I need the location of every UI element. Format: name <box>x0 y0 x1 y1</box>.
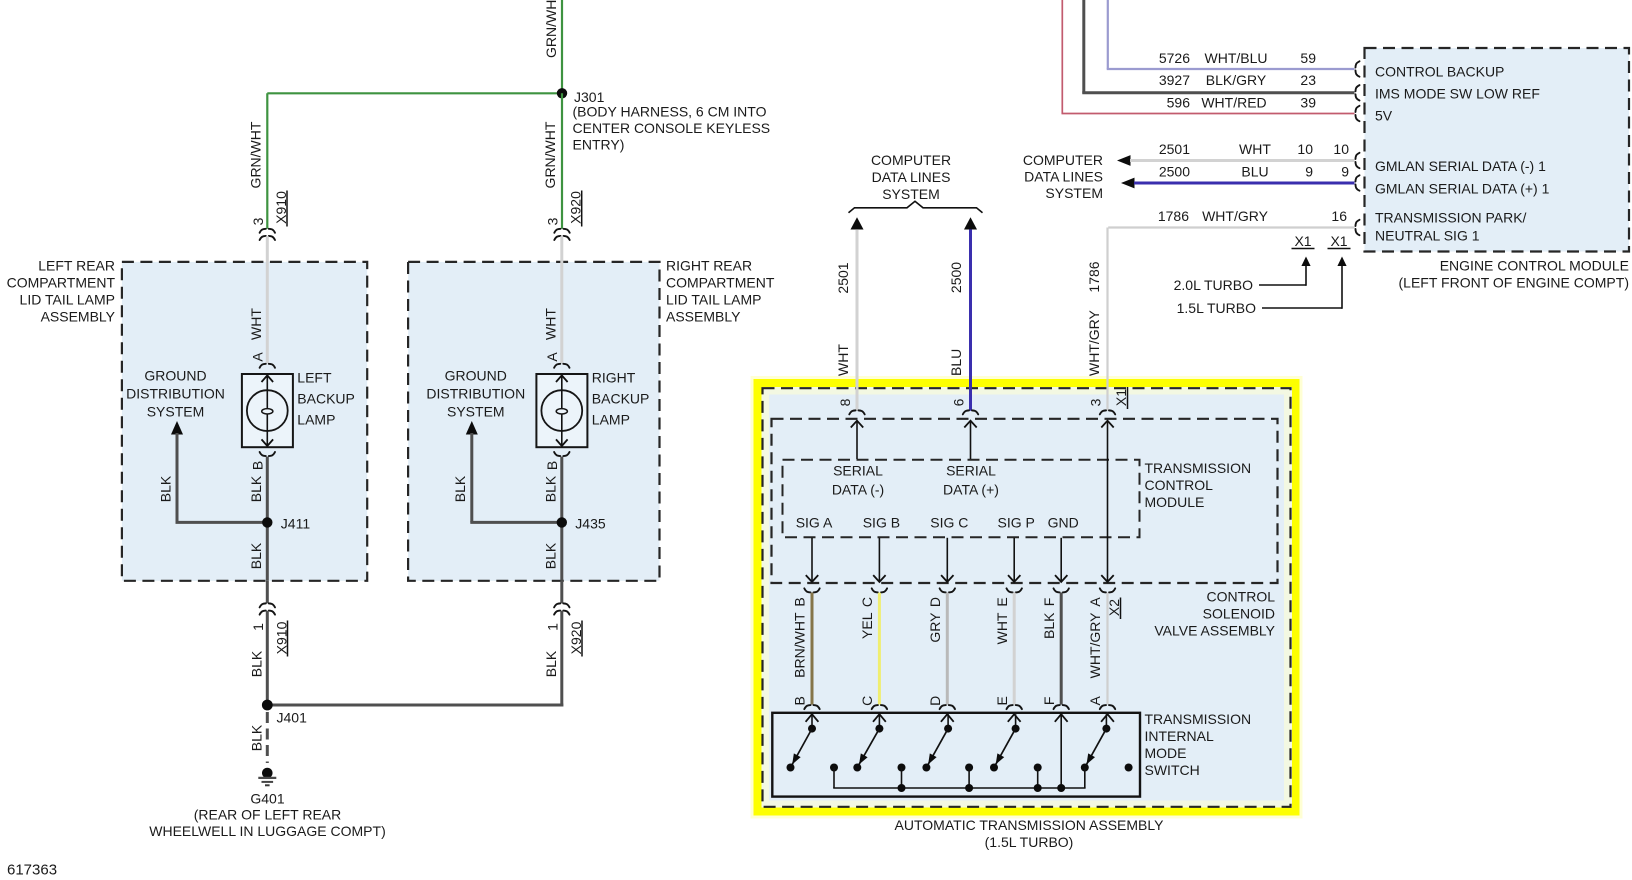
svg-text:D: D <box>927 696 943 706</box>
svg-text:5726: 5726 <box>1159 50 1190 66</box>
svg-text:ASSEMBLY: ASSEMBLY <box>41 308 116 324</box>
svg-text:9: 9 <box>1305 164 1313 180</box>
svg-text:A: A <box>250 352 266 362</box>
svg-text:WHEELWELL IN LUGGAGE COMPT): WHEELWELL IN LUGGAGE COMPT) <box>149 823 385 839</box>
computer data lines system (right instance) <box>1023 152 1103 168</box>
wire green horizontal J301 branch <box>267 92 562 94</box>
svg-text:TRANSMISSION: TRANSMISSION <box>1145 460 1252 476</box>
svg-text:SERIAL: SERIAL <box>946 462 996 478</box>
svg-text:2501: 2501 <box>1159 141 1190 157</box>
svg-text:J411: J411 <box>281 515 311 531</box>
svg-text:J401: J401 <box>277 709 308 725</box>
svg-text:AUTOMATIC TRANSMISSION ASSEMBL: AUTOMATIC TRANSMISSION ASSEMBLY <box>895 817 1165 833</box>
svg-text:CENTER CONSOLE KEYLESS: CENTER CONSOLE KEYLESS <box>573 120 771 136</box>
automatic transmission assembly yellow box <box>751 376 1303 819</box>
svg-text:BLK: BLK <box>1041 612 1057 639</box>
svg-text:DATA LINES: DATA LINES <box>872 169 951 185</box>
svg-text:MODE: MODE <box>1145 745 1187 761</box>
wire WHT into LEFT lamp <box>266 236 269 363</box>
svg-text:GMLAN SERIAL DATA (-) 1: GMLAN SERIAL DATA (-) 1 <box>1375 158 1546 174</box>
svg-text:BLK: BLK <box>248 475 264 502</box>
svg-text:E: E <box>994 597 1010 606</box>
TCM connector braces top <box>849 410 864 414</box>
wire BLK to X920 lower <box>560 581 563 604</box>
svg-text:1.5L TURBO: 1.5L TURBO <box>1177 300 1256 316</box>
svg-text:VALVE ASSEMBLY: VALVE ASSEMBLY <box>1154 622 1275 638</box>
wire WHT/GRY pin A <box>1106 593 1108 705</box>
svg-text:SIG P: SIG P <box>998 514 1035 530</box>
svg-text:(BODY HARNESS, 6 CM INTO: (BODY HARNESS, 6 CM INTO <box>573 103 767 119</box>
svg-text:D: D <box>927 597 943 607</box>
svg-text:WHT: WHT <box>994 612 1010 644</box>
svg-text:SYSTEM: SYSTEM <box>147 403 205 419</box>
wire 1786 WHT/GRY down to transmission <box>1106 228 1108 411</box>
mode switch connector pin A <box>1100 705 1115 709</box>
svg-text:3: 3 <box>544 217 560 225</box>
svg-text:INTERNAL: INTERNAL <box>1145 728 1214 744</box>
svg-text:3: 3 <box>1087 398 1103 406</box>
svg-text:ENTRY): ENTRY) <box>573 136 625 152</box>
left backup lamp <box>242 374 293 447</box>
svg-text:GROUND: GROUND <box>445 367 507 383</box>
svg-text:23: 23 <box>1300 72 1316 88</box>
connector X910 upper <box>260 229 275 233</box>
svg-text:SIG B: SIG B <box>863 514 900 530</box>
bus wiring <box>833 768 835 789</box>
svg-text:LAMP: LAMP <box>297 411 335 427</box>
svg-text:SOLENOID: SOLENOID <box>1203 605 1275 621</box>
svg-text:IMS MODE SW LOW REF: IMS MODE SW LOW REF <box>1375 85 1540 101</box>
svg-text:SERIAL: SERIAL <box>833 462 883 478</box>
wire GRN/WHT to X920 <box>561 93 563 228</box>
svg-text:GRN/WHT: GRN/WHT <box>542 121 558 188</box>
svg-text:10: 10 <box>1333 141 1349 157</box>
svg-text:SYSTEM: SYSTEM <box>882 186 940 202</box>
svg-text:3: 3 <box>250 217 266 225</box>
svg-text:TRANSMISSION: TRANSMISSION <box>1145 711 1252 727</box>
node J411 <box>262 517 272 527</box>
svg-text:BLK: BLK <box>543 542 559 569</box>
transmission assembly dashed border <box>763 388 1291 807</box>
connector X920 upper <box>554 229 569 233</box>
svg-text:F: F <box>1041 697 1057 706</box>
svg-text:X1: X1 <box>1330 233 1347 249</box>
svg-text:A: A <box>1087 597 1103 607</box>
svg-text:BLK: BLK <box>452 475 468 502</box>
svg-text:BLK: BLK <box>543 650 559 677</box>
mode switch connector pin D <box>940 705 955 709</box>
svg-text:X1: X1 <box>1113 389 1129 406</box>
svg-text:6: 6 <box>950 398 966 406</box>
label 5726 WHT/BLU 59 <box>1159 50 1190 66</box>
wire GRN/WHT to X910 <box>266 93 268 228</box>
svg-text:RIGHT: RIGHT <box>592 369 636 385</box>
mode switch connector pin B <box>804 705 819 709</box>
svg-text:E: E <box>994 696 1010 705</box>
svg-text:2501: 2501 <box>835 262 851 293</box>
connector lamp pin A <box>554 364 569 368</box>
svg-text:BLU: BLU <box>948 349 964 376</box>
computer data lines system (left instance) <box>871 152 951 168</box>
svg-text:COMPUTER: COMPUTER <box>1023 152 1103 168</box>
svg-text:LAMP: LAMP <box>592 411 630 427</box>
svg-text:B: B <box>250 461 266 470</box>
svg-text:DATA (+): DATA (+) <box>943 481 999 497</box>
svg-text:CONTROL: CONTROL <box>1207 588 1276 604</box>
svg-text:COMPARTMENT: COMPARTMENT <box>7 274 116 290</box>
svg-text:WHT: WHT <box>1239 141 1271 157</box>
wire WHT into RIGHT lamp <box>560 236 563 363</box>
wire GRY pin D <box>946 593 949 705</box>
switch arms <box>791 729 813 768</box>
arrow serial data (+) up <box>970 422 972 460</box>
svg-text:(1.5L TURBO): (1.5L TURBO) <box>985 834 1074 850</box>
svg-text:BLK: BLK <box>248 650 264 677</box>
svg-text:B: B <box>792 597 808 606</box>
svg-text:1786: 1786 <box>1158 208 1189 224</box>
switch F line to bus <box>1060 714 1062 788</box>
mode switch connector pin F <box>1054 705 1069 709</box>
svg-text:617363: 617363 <box>7 861 57 878</box>
wire GRN/WHT from top to J301 <box>561 0 563 95</box>
svg-text:WHT/GRY: WHT/GRY <box>1087 612 1103 679</box>
svg-text:F: F <box>1041 598 1057 607</box>
connector lamp pin A <box>260 364 275 368</box>
svg-text:DISTRIBUTION: DISTRIBUTION <box>126 385 225 401</box>
svg-text:X1: X1 <box>1294 233 1311 249</box>
svg-text:LID TAIL LAMP: LID TAIL LAMP <box>666 291 761 307</box>
node J301 <box>557 88 567 98</box>
svg-text:BACKUP: BACKUP <box>592 390 650 406</box>
connector lamp pin B <box>554 452 569 456</box>
svg-text:BLK: BLK <box>543 475 559 502</box>
svg-text:2500: 2500 <box>1159 164 1190 180</box>
svg-text:BLK: BLK <box>248 724 264 751</box>
svg-text:ENGINE CONTROL MODULE: ENGINE CONTROL MODULE <box>1440 257 1629 273</box>
label X1 X1 under ECM <box>1294 233 1311 249</box>
svg-text:YEL: YEL <box>859 612 875 639</box>
wire BLK to X910 lower <box>266 581 269 604</box>
svg-text:B: B <box>792 696 808 705</box>
svg-text:GMLAN SERIAL DATA (+) 1: GMLAN SERIAL DATA (+) 1 <box>1375 180 1550 196</box>
svg-text:GRN/WHT: GRN/WHT <box>543 0 559 58</box>
svg-text:(REAR OF LEFT REAR: (REAR OF LEFT REAR <box>194 807 342 823</box>
transmission internal mode switch box <box>772 713 1140 797</box>
svg-text:3927: 3927 <box>1159 72 1190 88</box>
wire WHT pin E <box>1013 593 1016 705</box>
svg-text:G401: G401 <box>250 790 284 806</box>
svg-text:CONTROL BACKUP: CONTROL BACKUP <box>1375 63 1504 79</box>
left lamp assembly box <box>122 262 367 581</box>
svg-text:LEFT REAR: LEFT REAR <box>38 257 115 273</box>
svg-text:WHT: WHT <box>543 308 559 340</box>
ECM connector braces <box>1355 61 1359 76</box>
svg-text:WHT/GRY: WHT/GRY <box>1086 309 1102 376</box>
wire 1786 WHT/GRY from ECM <box>1108 226 1354 228</box>
svg-text:ASSEMBLY: ASSEMBLY <box>666 308 741 324</box>
connector X920 lower <box>554 603 569 607</box>
contact dots open <box>787 764 795 772</box>
mode switch connector pin E <box>1007 705 1022 709</box>
wire BLK X920 down to J401 bus <box>560 611 563 707</box>
wire BLK dashed to ground <box>266 712 269 763</box>
arrow serial data (-) up <box>856 422 858 460</box>
2.0L TURBO callout <box>1174 277 1253 293</box>
svg-text:SIG A: SIG A <box>796 514 833 530</box>
wire BLK/GRY from top <box>1082 0 1085 94</box>
node J401 <box>262 700 273 711</box>
svg-text:GRN/WHT: GRN/WHT <box>247 121 263 188</box>
wire WHT/RED from top <box>1061 0 1063 114</box>
contact dots on bus stubs <box>830 764 838 772</box>
wire BLK pin F <box>1060 593 1063 705</box>
svg-text:WHT/GRY: WHT/GRY <box>1202 208 1269 224</box>
mode switch internals <box>806 714 819 722</box>
control solenoid valve assembly connector braces <box>804 588 819 592</box>
svg-text:5V: 5V <box>1375 107 1393 123</box>
wire BLK lamp to J411 <box>266 457 269 581</box>
svg-text:SYSTEM: SYSTEM <box>1045 185 1103 201</box>
label 596 WHT/RED 39 <box>1167 95 1191 111</box>
ground G401 <box>262 768 273 779</box>
svg-text:TRANSMISSION PARK/: TRANSMISSION PARK/ <box>1375 209 1527 225</box>
wire BLK lamp to J435 <box>560 457 563 581</box>
svg-text:BLK/GRY: BLK/GRY <box>1206 72 1267 88</box>
wire 2500 BLU horizontal <box>1121 178 1135 189</box>
label 3927 BLK/GRY 23 <box>1159 72 1190 88</box>
svg-text:1: 1 <box>544 623 560 631</box>
svg-text:9: 9 <box>1341 164 1349 180</box>
svg-text:GRY: GRY <box>927 612 943 643</box>
wire YEL pin C <box>878 593 881 705</box>
brace computer data lines <box>849 201 983 213</box>
caption left rear compartment <box>38 257 115 273</box>
svg-text:SIG C: SIG C <box>930 514 968 530</box>
svg-text:A: A <box>544 352 560 362</box>
wire WHT/BLU from top <box>1107 0 1109 70</box>
ground distribution system text+arrow <box>445 367 507 383</box>
svg-text:BLU: BLU <box>1241 164 1268 180</box>
mode switch connector pin C <box>872 705 887 709</box>
svg-text:LEFT: LEFT <box>297 369 332 385</box>
pin numbers at TCM top <box>837 398 853 406</box>
node J435 <box>557 517 567 527</box>
svg-text:A: A <box>1087 695 1103 705</box>
wire J401 horizontal bus <box>267 704 563 707</box>
1.5L TURBO callout <box>1177 300 1256 316</box>
right lamp assembly box <box>408 262 659 581</box>
svg-text:2500: 2500 <box>948 262 964 293</box>
engine control module box <box>1365 48 1630 252</box>
svg-text:CONTROL: CONTROL <box>1145 477 1214 493</box>
svg-text:C: C <box>859 696 875 706</box>
svg-text:COMPUTER: COMPUTER <box>871 152 951 168</box>
svg-text:WHT/RED: WHT/RED <box>1201 95 1266 111</box>
svg-text:59: 59 <box>1300 50 1316 66</box>
svg-text:16: 16 <box>1331 208 1347 224</box>
wire BLK X910 to J401 <box>266 611 269 705</box>
svg-text:RIGHT REAR: RIGHT REAR <box>666 257 752 273</box>
wire X1 pin3 down through TCM <box>1107 422 1109 582</box>
caption right rear compartment <box>666 257 752 273</box>
svg-text:DATA (-): DATA (-) <box>832 481 884 497</box>
wire BRN/WHT pin B <box>811 593 814 705</box>
svg-text:WHT/BLU: WHT/BLU <box>1205 50 1268 66</box>
svg-text:WHT: WHT <box>248 308 264 340</box>
serial data box <box>783 460 1140 538</box>
wire 2501 WHT down to transmission <box>851 217 864 229</box>
svg-text:GROUND: GROUND <box>144 367 206 383</box>
svg-text:J435: J435 <box>575 515 606 531</box>
wire 2501 WHT horizontal <box>1117 155 1131 166</box>
svg-text:COMPARTMENT: COMPARTMENT <box>666 274 775 290</box>
svg-text:WHT: WHT <box>835 344 851 376</box>
svg-text:8: 8 <box>837 398 853 406</box>
svg-text:LID TAIL LAMP: LID TAIL LAMP <box>20 291 115 307</box>
svg-text:596: 596 <box>1167 95 1191 111</box>
svg-text:B: B <box>544 461 560 470</box>
svg-text:1786: 1786 <box>1086 261 1102 292</box>
svg-text:DATA LINES: DATA LINES <box>1024 168 1103 184</box>
svg-text:SWITCH: SWITCH <box>1145 762 1200 778</box>
svg-text:2.0L TURBO: 2.0L TURBO <box>1174 277 1253 293</box>
right backup lamp <box>536 374 587 447</box>
svg-text:BRN/WHT: BRN/WHT <box>792 612 808 678</box>
svg-text:1: 1 <box>250 623 266 631</box>
svg-text:GND: GND <box>1048 514 1079 530</box>
diagram number <box>7 861 57 878</box>
svg-text:NEUTRAL SIG 1: NEUTRAL SIG 1 <box>1375 227 1480 243</box>
svg-text:39: 39 <box>1300 95 1316 111</box>
label GRN/WHT top <box>543 0 559 58</box>
wire 2500 BLU down to transmission <box>964 217 977 229</box>
svg-text:MODULE: MODULE <box>1145 494 1205 510</box>
svg-text:BLK: BLK <box>248 542 264 569</box>
arrows SIG A-P GND down <box>811 538 813 581</box>
ground distribution system text+arrow <box>144 367 206 383</box>
svg-text:SYSTEM: SYSTEM <box>447 403 505 419</box>
svg-text:BLK: BLK <box>157 475 173 502</box>
connector lamp pin B <box>260 452 275 456</box>
svg-text:DISTRIBUTION: DISTRIBUTION <box>426 385 525 401</box>
svg-text:C: C <box>859 597 875 607</box>
svg-text:10: 10 <box>1297 141 1313 157</box>
svg-text:BACKUP: BACKUP <box>297 390 355 406</box>
connector X910 lower <box>260 603 275 607</box>
transmission control module box <box>772 419 1278 583</box>
svg-text:(LEFT FRONT OF ENGINE COMPT): (LEFT FRONT OF ENGINE COMPT) <box>1399 274 1630 290</box>
